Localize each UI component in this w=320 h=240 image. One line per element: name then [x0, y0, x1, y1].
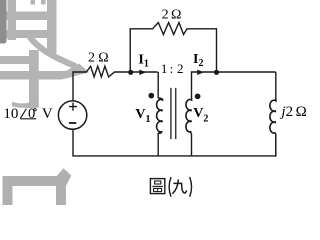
current arrow I1 — [139, 70, 146, 75]
svg-text:Ω: Ω — [296, 104, 307, 120]
svg-text:Ω: Ω — [171, 7, 181, 22]
watermark: band 3 — [0, 56, 32, 64]
wire inductor lead to bottom — [275, 134, 277, 156]
voltage source circle — [58, 101, 86, 129]
svg-text:10: 10 — [3, 106, 18, 122]
wire right coil top to right branch — [192, 72, 276, 98]
transformer secondary coil V2 — [186, 98, 192, 133]
wire top loop with resistor 2Ω (feedback) — [130, 23, 216, 73]
watermark: bottom-left box top bar — [3, 176, 67, 186]
svg-text:j2: j2 — [279, 104, 293, 120]
svg-text:0: 0 — [28, 106, 35, 122]
watermark: bottom-left box corner point — [56, 168, 72, 186]
transformer core lines — [171, 88, 176, 139]
watermark: hook tail — [12, 98, 39, 108]
wire left coil lead from top — [157, 72, 159, 98]
inductor j2Ω — [270, 99, 276, 134]
svg-text:I2: I2 — [193, 52, 203, 69]
watermark: vertical stroke of lower part — [29, 50, 39, 108]
watermark: bottom band with wedge tip — [0, 64, 89, 80]
wire right branch down — [275, 72, 277, 99]
svg-text:2: 2 — [162, 7, 169, 22]
angle symbol slash — [20, 109, 26, 119]
watermark: ladder left vertical — [8, 0, 17, 40]
plus sign — [69, 103, 77, 111]
current arrow I2 — [197, 70, 204, 75]
svg-text:I1: I1 — [138, 52, 148, 69]
watermark: ladder right vertical — [47, 0, 57, 57]
caption open paren — [169, 177, 171, 197]
caption glyph 九 — [172, 179, 186, 193]
svg-text:Ω: Ω — [98, 51, 108, 66]
wire left coil lead to bottom — [157, 133, 159, 156]
polarity dot (primary) — [148, 93, 154, 99]
svg-text:2: 2 — [88, 51, 95, 66]
polarity dot (secondary) — [195, 93, 201, 99]
watermark: curved stroke — [30, 37, 75, 66]
watermark: dark bar left edge — [0, 0, 7, 44]
watermark: top nub 2 — [41, 0, 46, 5]
junction node dot (right) — [214, 70, 219, 75]
degree mark — [34, 109, 36, 111]
svg-text:2: 2 — [177, 61, 184, 76]
watermark: bottom-left box left vertical — [3, 176, 13, 205]
watermark: top nub 1 — [31, 0, 36, 5]
caption glyph 圖 — [150, 179, 164, 194]
svg-text:V: V — [42, 106, 53, 122]
wire right coil lead to bottom — [191, 133, 193, 156]
minus sign — [69, 122, 76, 124]
watermark: bottom-left box right vertical — [56, 176, 66, 205]
svg-text:V2: V2 — [193, 106, 208, 124]
caption close paren — [190, 177, 192, 197]
svg-text::: : — [170, 61, 174, 76]
svg-text:1: 1 — [161, 61, 168, 76]
angle symbol underline — [20, 118, 36, 120]
junction node dot (left) — [128, 70, 133, 75]
watermark: rung 2 — [0, 30, 47, 38]
wire main left with resistor 2Ω (series) — [73, 66, 158, 101]
svg-text:V1: V1 — [135, 107, 150, 125]
transformer primary coil V1 — [157, 98, 163, 133]
wire bottom rail — [73, 129, 276, 156]
watermark: rung 1 — [0, 12, 54, 21]
